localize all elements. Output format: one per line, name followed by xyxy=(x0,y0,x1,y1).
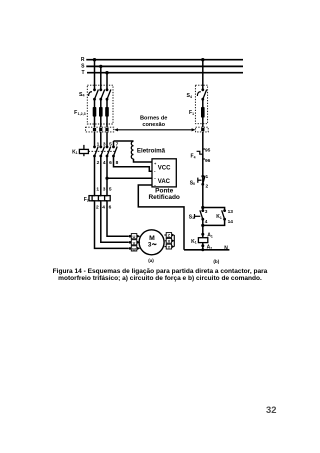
wire coil to N xyxy=(202,243,204,250)
F4 thermal hook xyxy=(197,151,203,154)
coil K1 control xyxy=(198,238,207,243)
N rail xyxy=(184,249,229,251)
svg-text:95: 95 xyxy=(205,148,211,154)
wire L3 contact to overload xyxy=(106,156,108,196)
svg-text:Eletroímã: Eletroímã xyxy=(137,147,166,154)
wire electromagnet to bridge plus xyxy=(134,159,153,162)
wire L3 tap to bridge AC xyxy=(107,177,152,179)
svg-text:7: 7 xyxy=(116,142,119,148)
bridge terminal marks xyxy=(154,161,157,188)
svg-text:F4: F4 xyxy=(191,154,196,160)
motor M1 circle xyxy=(139,230,164,255)
svg-text:W: W xyxy=(132,246,136,251)
node dot control on R xyxy=(201,58,204,61)
svg-text:R: R xyxy=(81,57,85,63)
wire L1 strip to contact xyxy=(94,132,96,147)
node dot on R xyxy=(93,58,96,61)
contact K1 pole 2 xyxy=(99,146,104,158)
svg-text:2: 2 xyxy=(97,160,100,166)
motor terminal U xyxy=(129,234,141,239)
svg-text:4: 4 xyxy=(102,205,105,211)
svg-text:1: 1 xyxy=(206,174,209,180)
contact K1 aux pole 7-8 xyxy=(112,141,117,157)
bus line S xyxy=(86,65,243,67)
svg-text:S4: S4 xyxy=(79,92,84,98)
motor terminal V xyxy=(129,240,141,245)
contact K1 pole 1 xyxy=(93,146,98,158)
svg-text:3: 3 xyxy=(148,242,152,249)
double arrow bornes xyxy=(114,128,196,131)
svg-text:4: 4 xyxy=(103,160,106,166)
terminal square L3 xyxy=(105,128,108,131)
svg-text:VCC: VCC xyxy=(158,166,171,172)
svg-text:K1: K1 xyxy=(191,239,197,245)
dashed enclosure right S4/F1 xyxy=(195,85,207,124)
svg-text:S4: S4 xyxy=(187,93,192,99)
contact K1 13-14 xyxy=(222,209,226,220)
svg-text:~: ~ xyxy=(154,176,157,181)
contact K1 pole 3 xyxy=(106,146,111,158)
svg-text:Y: Y xyxy=(168,244,171,249)
wire tap L3 from T xyxy=(106,73,108,90)
svg-text:U: U xyxy=(133,234,136,239)
switch S4 handle hook xyxy=(89,92,92,96)
svg-text:1,2,3: 1,2,3 xyxy=(78,112,86,116)
wire S4 to F1 control xyxy=(202,99,204,127)
wire strip to F4 contact xyxy=(202,132,204,208)
wire contact7 to electromagnet xyxy=(114,140,134,142)
wire L2 strip to contact xyxy=(100,132,102,147)
fuse F1 xyxy=(93,107,97,117)
svg-text:Z: Z xyxy=(168,233,171,238)
node dot on S xyxy=(99,65,102,68)
wire tap L1 from R xyxy=(94,60,96,90)
svg-text:4: 4 xyxy=(205,219,208,225)
switch S4 control hook xyxy=(197,92,200,96)
bus line T xyxy=(87,72,243,74)
motor stubs xyxy=(164,234,166,236)
dashed enclosure left S4/F123 xyxy=(87,85,113,124)
svg-text:K1: K1 xyxy=(72,149,78,155)
motor terminal W xyxy=(129,246,141,251)
terminal square L1 xyxy=(93,128,96,131)
fuse F1 control xyxy=(201,107,205,118)
fuse F3 xyxy=(105,107,109,117)
branch rejoin wire xyxy=(203,219,225,225)
terminal strip left (bornes) xyxy=(86,127,114,132)
terminal square control xyxy=(201,128,204,131)
wire L1 contact to overload xyxy=(94,156,96,196)
wire overload to motor V xyxy=(101,201,129,242)
pushbutton S0 NC xyxy=(198,175,205,186)
svg-text:V: V xyxy=(133,240,136,245)
overload relay F7 xyxy=(89,196,110,201)
motor terminal Z xyxy=(166,233,174,238)
svg-text:Retificado: Retificado xyxy=(148,194,179,201)
terminal square L2 xyxy=(99,128,102,131)
switch S4 pole 1 xyxy=(93,88,98,100)
fuse F2 xyxy=(99,107,103,117)
svg-text:13: 13 xyxy=(228,209,234,215)
rejoin node xyxy=(201,224,204,227)
contactor K1 coil symbol (force side) xyxy=(79,145,88,156)
mechanical link dashed xyxy=(88,150,115,152)
pushbutton S1 NO xyxy=(195,208,205,221)
svg-text:K1: K1 xyxy=(216,214,222,220)
svg-text:8: 8 xyxy=(116,160,119,166)
star link bar xyxy=(173,235,175,247)
node dot L3 bridge tap xyxy=(105,177,108,180)
svg-text:5: 5 xyxy=(109,142,112,148)
svg-text:14: 14 xyxy=(228,219,234,225)
wire L2 contact to overload xyxy=(100,156,102,196)
svg-text:VAC: VAC xyxy=(158,179,171,185)
wire tap L2 from S xyxy=(100,66,102,89)
svg-text:+: + xyxy=(154,161,157,166)
svg-text:S: S xyxy=(81,64,85,70)
svg-text:(a): (a) xyxy=(148,258,154,263)
electromagnet coil (Eletroima) xyxy=(131,141,133,159)
wire L3 switch to fuse xyxy=(106,99,108,127)
svg-text:3: 3 xyxy=(205,209,208,215)
svg-text:-: - xyxy=(154,168,156,173)
svg-text:6: 6 xyxy=(109,160,112,166)
svg-text:1: 1 xyxy=(96,187,99,193)
rectifier bridge box U2 xyxy=(152,159,176,187)
caption xyxy=(0,268,320,282)
motor terminal Y xyxy=(166,244,174,249)
wire L1 switch to fuse xyxy=(94,99,96,127)
svg-text:(b): (b) xyxy=(213,259,219,264)
svg-text:2: 2 xyxy=(206,183,209,189)
svg-text:1: 1 xyxy=(97,142,100,148)
svg-text:6: 6 xyxy=(109,205,112,211)
branch wire to K1 13 xyxy=(203,208,225,211)
svg-text:conexão: conexão xyxy=(142,122,165,128)
wire tap control from R xyxy=(202,60,204,90)
motor terminal X xyxy=(166,238,174,243)
wire S1 to coil xyxy=(202,219,204,238)
wire contact8 to bridge minus xyxy=(114,156,153,171)
wire overload to motor U xyxy=(107,201,129,236)
svg-text:2: 2 xyxy=(96,205,99,211)
wire bridge AC2 to N rail xyxy=(138,185,184,250)
switch S4 pole 3 xyxy=(106,88,111,100)
svg-text:N: N xyxy=(224,245,228,251)
node A2 xyxy=(201,244,204,247)
terminal strip right xyxy=(196,127,209,132)
svg-text:X: X xyxy=(168,239,171,244)
wire overload to motor W xyxy=(95,201,129,248)
node N xyxy=(201,248,204,251)
bus line R xyxy=(86,59,243,61)
node dot on T xyxy=(105,71,108,74)
page number xyxy=(266,404,276,415)
svg-text:96: 96 xyxy=(205,158,211,164)
node A1 xyxy=(201,233,204,236)
svg-text:F1: F1 xyxy=(189,110,194,116)
svg-text:5: 5 xyxy=(109,187,112,193)
switch S4 pole 2 xyxy=(99,88,104,100)
wire L3 strip to contact xyxy=(106,132,108,147)
svg-text:F7: F7 xyxy=(84,197,89,203)
svg-text:3: 3 xyxy=(103,187,106,193)
contact F4 (95-96) ticks xyxy=(203,148,205,150)
branch split node xyxy=(201,206,204,209)
svg-text:3: 3 xyxy=(103,142,106,148)
svg-text:Bornes de: Bornes de xyxy=(140,116,167,122)
svg-text:S1: S1 xyxy=(189,214,194,220)
svg-text:T: T xyxy=(81,70,84,76)
wire L2 switch to fuse xyxy=(100,99,102,127)
switch S4 control pole xyxy=(201,88,206,100)
svg-text:S0: S0 xyxy=(190,180,195,186)
